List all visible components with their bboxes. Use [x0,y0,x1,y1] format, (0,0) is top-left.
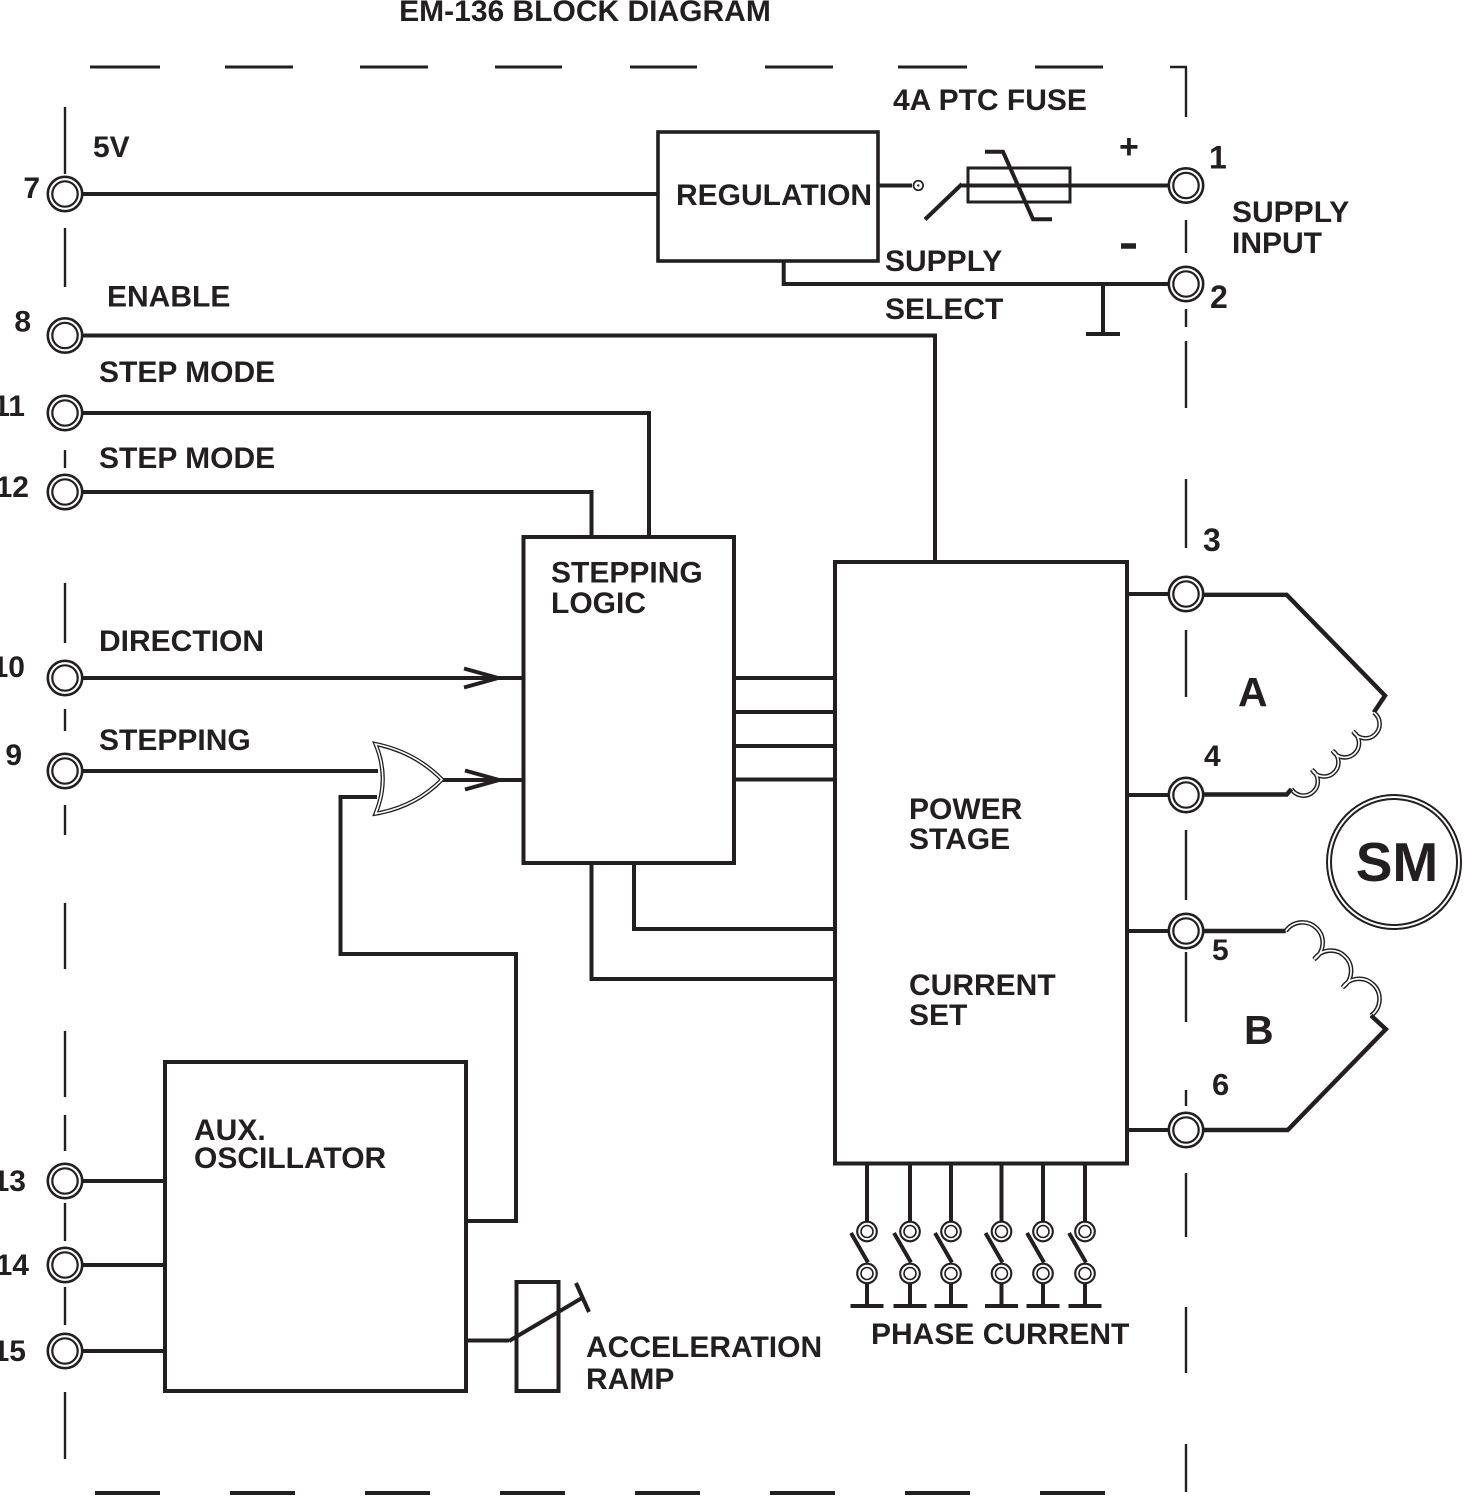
svg-text:SELECT: SELECT [885,293,1003,326]
svg-text:ACCELERATION: ACCELERATION [586,1331,822,1364]
svg-text:5V: 5V [93,131,130,164]
svg-text:SM: SM [1356,831,1439,893]
wire through fuse to terminal 1 [962,184,1169,188]
terminal 13 [48,1164,82,1198]
dashed border left (x=65) [64,107,66,1459]
svg-text:LOGIC: LOGIC [551,587,646,620]
terminal 3 [1169,577,1203,611]
dashed border right (x=1186) [1185,220,1187,1492]
svg-text:3: 3 [1203,522,1221,558]
switch S2 phase current [894,1164,927,1307]
wire power stage to terminal 4 [1127,793,1169,797]
svg-text:7: 7 [23,172,40,205]
svg-text:PHASE CURRENT: PHASE CURRENT [871,1318,1129,1351]
svg-text:10: 10 [0,651,25,684]
ground symbol [1086,284,1120,334]
svg-text:15: 15 [0,1335,26,1368]
terminal 15 [48,1334,82,1368]
potentiometer ACCELERATION RAMP body [517,1282,559,1391]
wire bus4 [734,778,835,782]
motor winding A [1203,595,1385,796]
terminal 4 [1169,778,1203,812]
svg-text:4A PTC FUSE: 4A PTC FUSE [893,84,1087,117]
terminal 8 [48,318,82,352]
svg-text:+: + [1119,128,1139,166]
dashed border bottom [95,1491,1105,1495]
svg-text:STEP MODE: STEP MODE [99,442,275,475]
box AUX. OSCILLATOR [165,1062,466,1391]
svg-text:13: 13 [0,1165,26,1198]
svg-text:DIRECTION: DIRECTION [99,625,264,658]
box REGULATION [658,132,878,261]
wire stepping logic bottom out2 [592,863,836,979]
terminal 10 [48,661,82,695]
label minus [1121,243,1136,249]
terminal 5 [1169,914,1203,948]
wire OR gate output to stepping logic [440,778,524,782]
svg-text:ENABLE: ENABLE [107,281,230,314]
svg-text:9: 9 [5,739,22,772]
motor SM [1327,795,1461,929]
box STEPPING LOGIC [524,537,735,863]
wire STEP MODE 1 terminal11 to stepping logic [82,413,649,537]
wire terminal 13 to aux [82,1179,165,1183]
wire REGULATION output to switch contact [878,184,912,188]
switch S6 phase current [1069,1164,1102,1307]
potentiometer wiper arrow [509,1283,589,1341]
wire STEPPING terminal9 to OR gate [82,769,378,773]
svg-text:14: 14 [0,1249,29,1282]
svg-text:SUPPLY: SUPPLY [885,245,1002,278]
wire bus3 [734,744,835,748]
svg-text:8: 8 [14,306,31,339]
box POWER STAGE / CURRENT SET [835,562,1127,1164]
terminal 1 [1169,168,1203,202]
switch contact circle [914,181,924,191]
svg-text:4: 4 [1204,740,1221,773]
svg-text:REGULATION: REGULATION [676,179,872,212]
wire STEP MODE 2 terminal12 to stepping logic [82,492,592,537]
wire bus1 stepping logic to power stage [734,676,835,680]
switch S5 phase current [1027,1164,1060,1307]
fuse 4A PTC body [968,168,1070,202]
svg-text:12: 12 [0,471,29,504]
wire DIRECTION terminal10 to stepping logic [82,676,524,680]
svg-text:SUPPLY: SUPPLY [1232,196,1349,229]
svg-text:5: 5 [1212,934,1229,967]
terminal 11 [48,396,82,430]
svg-text:STEPPING: STEPPING [99,724,251,757]
switch S3 phase current [935,1164,968,1307]
svg-text:6: 6 [1212,1067,1229,1102]
svg-text:SET: SET [909,999,967,1032]
wire ENABLE terminal8 to power stage [82,336,935,563]
dashed border top-right corner [1170,67,1187,117]
terminal 7 [48,177,82,211]
terminal 6 [1169,1113,1203,1147]
wire power stage to terminal 3 [1127,592,1169,596]
wire 5V terminal7 to REGULATION [82,192,658,196]
terminal 14 [48,1248,82,1282]
arrowhead DIRECTION input [464,669,498,688]
arrowhead STEPPING input [465,771,499,790]
svg-text:2: 2 [1210,279,1228,315]
switch S1 phase current [851,1164,884,1307]
dashed border top [90,66,1103,69]
switch blade supply select [925,184,962,220]
wire terminal 14 to aux [82,1263,165,1267]
wire power stage to terminal 6 [1127,1128,1169,1132]
wire aux oscillator to acceleration ramp pot [466,1339,509,1343]
wire stepping logic bottom out1 [634,863,835,929]
wire terminal 15 to aux [82,1349,165,1353]
svg-text:RAMP: RAMP [586,1363,674,1396]
svg-text:STEPPING: STEPPING [551,557,703,590]
svg-text:1: 1 [1209,140,1227,176]
svg-text:STAGE: STAGE [909,823,1010,856]
svg-text:OSCILLATOR: OSCILLATOR [194,1142,387,1175]
PTC strike diagonal [985,152,1052,219]
switch S4 phase current [985,1164,1018,1307]
svg-text:EM-136 BLOCK DIAGRAM: EM-136 BLOCK DIAGRAM [399,0,771,28]
wire power stage to terminal 5 [1127,929,1169,933]
or-gate U1 [376,744,443,814]
svg-text:POWER: POWER [909,793,1023,826]
svg-text:STEP MODE: STEP MODE [99,356,275,389]
svg-text:INPUT: INPUT [1232,227,1322,260]
svg-text:11: 11 [0,390,25,423]
motor winding B [1203,922,1386,1130]
terminal 2 [1169,267,1203,301]
wire SUPPLY SELECT regulation bottom to terminal 2 [784,261,1169,284]
terminal 9 [48,754,82,788]
svg-text:B: B [1244,1007,1274,1053]
svg-text:A: A [1238,669,1268,715]
wire bus2 [734,710,835,714]
terminal 12 [48,475,82,509]
svg-text:CURRENT: CURRENT [909,969,1056,1002]
wire from AUX oscillator to OR gate lower input [341,797,517,1221]
